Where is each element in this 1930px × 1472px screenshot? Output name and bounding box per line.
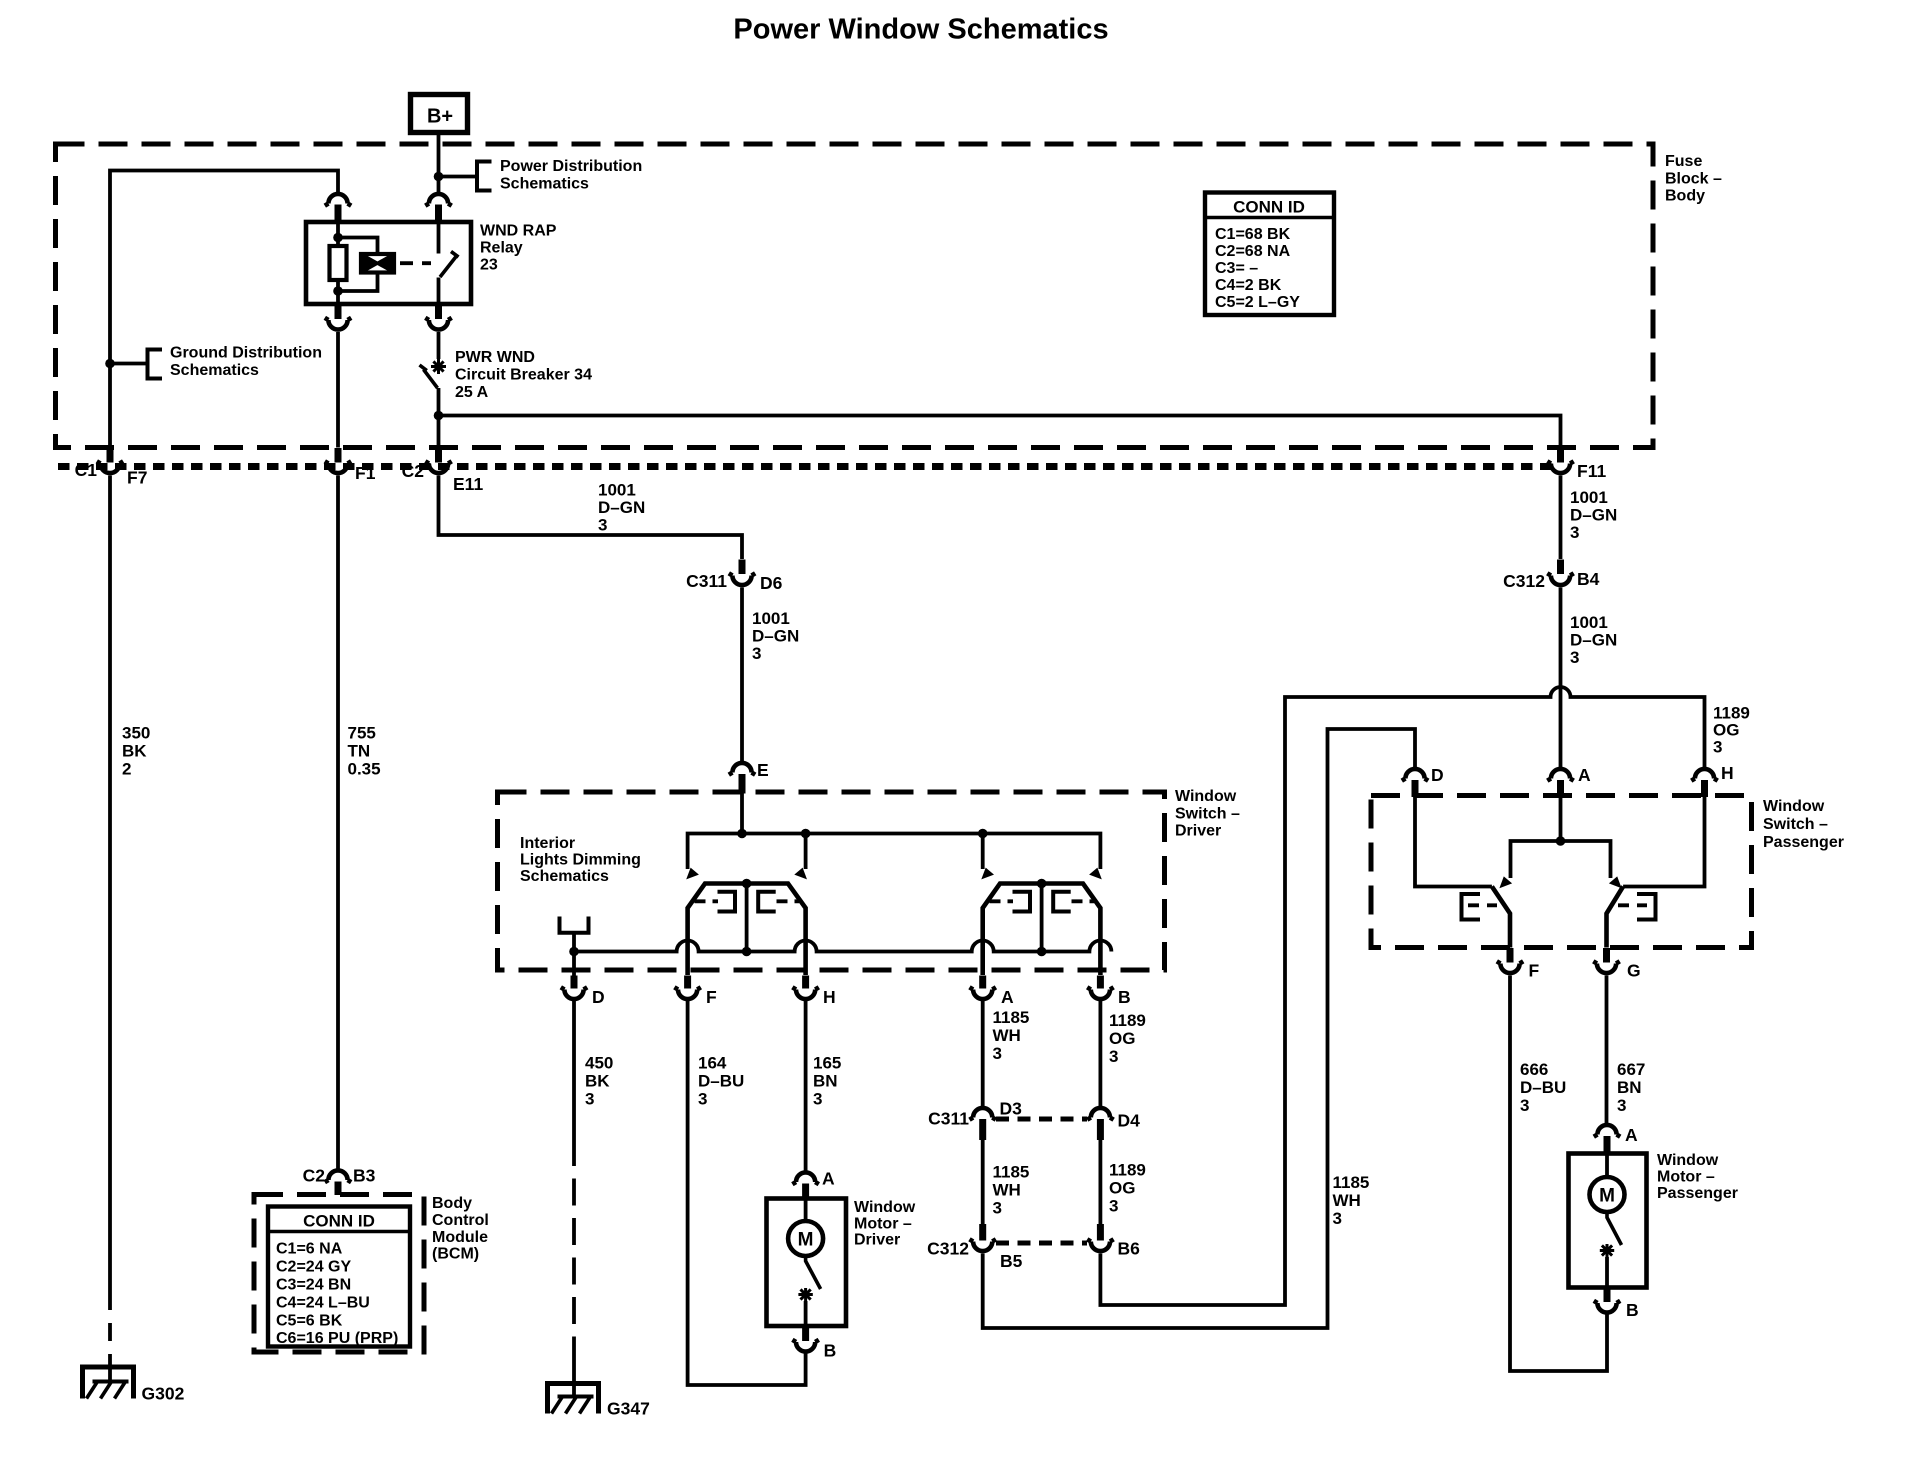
C312 jumper dashes (996, 1241, 1087, 1246)
label 350 BK 2 (122, 724, 150, 779)
CONN ID table (fuse block) (1205, 193, 1334, 316)
connector G (passenger switch) (1593, 948, 1640, 981)
svg-text:F11: F11 (1577, 461, 1606, 481)
connector A (passenger motor) (1594, 1125, 1638, 1154)
bracket Power Distribution Schematics (477, 158, 642, 193)
motor M passenger (1590, 1177, 1625, 1212)
svg-text:C6=16 PU (PRP): C6=16 PU (PRP) (276, 1330, 398, 1347)
label Interior Lights Dimming Schematics (520, 835, 641, 885)
svg-text:D–BU: D–BU (1520, 1078, 1566, 1097)
svg-text:G302: G302 (142, 1384, 185, 1404)
motor thermal blade passenger (1607, 1212, 1622, 1245)
svg-text:G347: G347 (607, 1399, 650, 1419)
switch2 left contact (990, 892, 1031, 912)
node breaker output (434, 411, 444, 421)
switch1 right contact (758, 892, 799, 912)
node coil top (333, 233, 343, 243)
svg-text:Window: Window (1657, 1152, 1719, 1169)
svg-text:3: 3 (1109, 1047, 1118, 1066)
svg-text:164: 164 (698, 1054, 727, 1073)
svg-text:1185: 1185 (993, 1163, 1030, 1182)
switch2 center post (1040, 884, 1044, 952)
connector B (driver switch) (1087, 976, 1130, 1008)
relay armature dashed linkage (400, 261, 431, 265)
B+ battery feed box (411, 95, 468, 133)
wire D to left pivot (1415, 797, 1492, 887)
svg-text:1185: 1185 (993, 1008, 1030, 1027)
svg-text:A: A (1625, 1125, 1638, 1145)
svg-text:1189: 1189 (1109, 1161, 1146, 1180)
label 1185 WH 3 upper (993, 1008, 1030, 1063)
svg-text:OG: OG (1109, 1179, 1135, 1198)
relay coil element (crossed box) (361, 254, 394, 273)
svg-text:B: B (824, 1341, 837, 1361)
wire E11 to C311 D6 (439, 476, 743, 560)
relay pin 4 connector (switch bottom) (425, 304, 451, 330)
svg-text:2: 2 (122, 760, 131, 779)
wire F11 to C312 B4 (1559, 476, 1563, 560)
wire 350 BK 2 (C1 to G302) (108, 476, 112, 1311)
svg-text:3: 3 (1109, 1197, 1118, 1216)
svg-text:3: 3 (1570, 523, 1579, 542)
label 1001 D-GN 3 (D6) (752, 609, 799, 663)
svg-text:Interior: Interior (520, 835, 575, 852)
svg-text:Driver: Driver (854, 1232, 900, 1249)
svg-text:1001: 1001 (598, 481, 636, 500)
svg-text:165: 165 (813, 1054, 841, 1073)
label 1001 D-GN 3 (E11) (598, 481, 645, 535)
connector C2/E11 (402, 448, 484, 494)
label 1189 OG 3 (passenger H) (1713, 704, 1750, 757)
wire 164 D-BU 3 (F to motor B loop) (688, 1001, 806, 1385)
svg-text:BK: BK (122, 742, 147, 761)
label 667 BN 3 (1617, 1060, 1645, 1115)
svg-text:3: 3 (752, 644, 761, 663)
ground G347 (545, 1384, 650, 1419)
relay switch output wire (437, 278, 441, 305)
relay pin 1 connector (coil top) (325, 194, 351, 222)
svg-text:C2=24 GY: C2=24 GY (276, 1259, 351, 1276)
switch2 right contact (1053, 892, 1094, 912)
connector C1/F7 (75, 448, 148, 488)
driver switch supply bus (688, 834, 1101, 870)
connector A (passenger switch) (1547, 765, 1591, 797)
wire 1185 WH 3 (A to D3) (981, 1001, 985, 1109)
svg-text:3: 3 (1713, 738, 1722, 757)
resistor (relay coil suppression) (330, 246, 347, 280)
svg-text:E: E (757, 760, 769, 780)
svg-text:F: F (1529, 961, 1540, 981)
svg-text:Window: Window (1175, 788, 1237, 805)
svg-text:D–GN: D–GN (598, 498, 645, 517)
wire 450 BK 3 (D to G347) (572, 1001, 576, 1397)
svg-text:1001: 1001 (1570, 613, 1608, 632)
svg-text:1001: 1001 (752, 609, 790, 628)
svg-text:Schematics: Schematics (520, 868, 609, 885)
svg-text:Passenger: Passenger (1763, 834, 1844, 851)
C311 jumper dashes (996, 1117, 1087, 1122)
wire 1185 WH 3 (B5 to passenger D) (983, 729, 1415, 1328)
svg-text:D–BU: D–BU (698, 1072, 744, 1091)
wire 165 BN 3 (H to motor A) (804, 1001, 808, 1173)
label 755 TN 0.35 (348, 724, 381, 779)
label Window Motor - Passenger (1657, 1152, 1738, 1202)
svg-text:C1=6 NA: C1=6 NA (276, 1241, 343, 1258)
svg-text:F: F (706, 987, 717, 1007)
svg-text:3: 3 (993, 1044, 1002, 1063)
svg-text:C3=24 BN: C3=24 BN (276, 1277, 351, 1294)
window motor passenger box (1569, 1154, 1647, 1288)
svg-text:Window: Window (854, 1199, 916, 1216)
node post1 top (742, 879, 752, 889)
wire 1189 OG 3 (B6 to passenger H) with hop (1100, 687, 1704, 1305)
svg-text:C2=68 NA: C2=68 NA (1215, 243, 1291, 260)
label PWR WND Circuit Breaker 34 25 A (455, 349, 592, 401)
wire 1185 WH 3 (D3 to B5) (981, 1140, 985, 1224)
inline connector C312 B5 (927, 1224, 1022, 1271)
wire relay switch to breaker (437, 332, 441, 359)
passenger right contact (1618, 894, 1656, 920)
svg-text:Body: Body (1665, 188, 1705, 205)
svg-text:666: 666 (1520, 1060, 1548, 1079)
label 1189 OG 3 mid (1109, 1161, 1146, 1216)
svg-text:D–GN: D–GN (1570, 631, 1617, 650)
label Window Switch - Driver (1175, 788, 1240, 840)
svg-text:D–GN: D–GN (752, 627, 799, 646)
relay pin 2 connector (switch top) (425, 194, 451, 222)
inline connector C311 D3 (928, 1099, 1022, 1141)
driver window switch 1 body (688, 884, 806, 976)
svg-text:Window: Window (1763, 798, 1825, 815)
svg-text:B3: B3 (353, 1166, 376, 1186)
label Window Switch - Passenger (1763, 798, 1844, 851)
svg-text:B5: B5 (1000, 1251, 1023, 1271)
switch1 center post (745, 884, 749, 952)
connector B (passenger motor) (1594, 1288, 1639, 1321)
connector D (driver switch) (561, 976, 605, 1008)
svg-text:WND RAP: WND RAP (480, 223, 557, 240)
svg-text:CONN ID: CONN ID (303, 1212, 375, 1231)
relay switch fixed contact (437, 222, 441, 254)
svg-text:C5=2 L–GY: C5=2 L–GY (1215, 294, 1300, 311)
label 1185 WH 3 mid (993, 1163, 1030, 1218)
svg-text:Schematics: Schematics (500, 176, 589, 193)
svg-text:A: A (1001, 987, 1014, 1007)
svg-text:Circuit Breaker 34: Circuit Breaker 34 (455, 367, 592, 384)
label 1001 D-GN 3 (B4) (1570, 613, 1617, 667)
relay coil branch wires (338, 238, 378, 292)
node passenger wiper (1556, 836, 1566, 846)
svg-text:D6: D6 (760, 573, 783, 593)
svg-text:D4: D4 (1118, 1111, 1141, 1131)
svg-text:(BCM): (BCM) (432, 1246, 479, 1263)
svg-text:G: G (1627, 961, 1641, 981)
svg-text:Passenger: Passenger (1657, 1185, 1738, 1202)
label 1185 WH 3 long (1333, 1173, 1370, 1228)
svg-text:F7: F7 (127, 468, 147, 488)
label WND RAP Relay 23 (480, 223, 557, 274)
window motor driver box (767, 1199, 847, 1327)
svg-text:667: 667 (1617, 1060, 1645, 1079)
wire D6 to E (740, 588, 744, 764)
driver window switch 2 body (983, 884, 1101, 976)
label Window Motor - Driver (854, 1199, 916, 1249)
svg-text:C312: C312 (927, 1239, 969, 1259)
svg-text:WH: WH (993, 1026, 1021, 1045)
node post2 bottom (1037, 947, 1047, 957)
passenger left switch blade (1492, 887, 1510, 948)
svg-text:C311: C311 (686, 571, 727, 591)
wire to power distribution bracket (439, 175, 478, 179)
relay K23 WND RAP box (306, 222, 471, 304)
svg-text:1001: 1001 (1570, 488, 1608, 507)
connector B (driver motor) (792, 1326, 836, 1361)
wire D leg (572, 952, 576, 977)
svg-text:BN: BN (813, 1072, 838, 1091)
wiper arrow passenger left (1499, 876, 1512, 888)
node post1 bottom (742, 947, 752, 957)
motor thermal contact star (798, 1288, 812, 1301)
svg-text:Motor –: Motor – (1657, 1169, 1715, 1186)
CONN ID table (BCM) (268, 1207, 410, 1348)
dimming return bus with hops (574, 941, 1111, 952)
svg-text:Power Window Schematics: Power Window Schematics (733, 14, 1108, 46)
wire E into supply bus (740, 794, 744, 834)
svg-text:Ground Distribution: Ground Distribution (170, 345, 322, 362)
label 450 BK 3 (585, 1054, 613, 1109)
svg-text:M: M (1599, 1186, 1615, 1207)
interior lights dimming connector symbol (560, 917, 589, 933)
svg-text:3: 3 (598, 516, 607, 535)
wire relay coil to F1 (336, 332, 340, 448)
svg-text:1189: 1189 (1109, 1011, 1146, 1030)
connector A (driver motor) (792, 1169, 835, 1200)
svg-text:23: 23 (480, 257, 498, 274)
node: power distribution tap (434, 172, 444, 182)
wire motor feed passenger (1605, 1154, 1609, 1178)
svg-text:WH: WH (1333, 1191, 1361, 1210)
node coil bottom (333, 286, 343, 296)
svg-text:B: B (1118, 987, 1131, 1007)
svg-text:25 A: 25 A (455, 384, 489, 401)
node: ground distribution tap (105, 359, 115, 369)
label Body Control Module (BCM) (432, 1195, 489, 1263)
connector D (passenger switch) (1402, 765, 1444, 797)
label 164 D-BU 3 (698, 1054, 744, 1109)
wire motor feed (804, 1199, 808, 1222)
motor thermal blade (806, 1256, 821, 1289)
ground G302 (80, 1367, 185, 1404)
motor thermal contact star passenger (1600, 1244, 1614, 1257)
svg-text:3: 3 (698, 1090, 707, 1109)
node post2 top (1037, 879, 1047, 889)
svg-text:WH: WH (993, 1181, 1021, 1200)
wire dimming stem (572, 933, 576, 952)
connector F11 (1547, 448, 1606, 481)
wire to ground distribution bracket (110, 362, 148, 366)
wire 666 D-BU 3 (F to motor B loop) (1510, 976, 1607, 1372)
node bus E (737, 829, 747, 839)
svg-text:Module: Module (432, 1229, 488, 1246)
svg-text:Schematics: Schematics (170, 362, 259, 379)
svg-text:F1: F1 (355, 463, 376, 483)
svg-text:C311: C311 (928, 1109, 969, 1129)
connector F (driver switch) (674, 976, 717, 1008)
svg-text:450: 450 (585, 1054, 613, 1073)
svg-text:Motor –: Motor – (854, 1216, 912, 1233)
window switch driver dashed box (498, 792, 1165, 970)
svg-text:755: 755 (348, 724, 376, 743)
body control module dashed box (254, 1195, 424, 1353)
svg-text:B: B (1626, 1300, 1639, 1320)
svg-text:Fuse: Fuse (1665, 153, 1702, 170)
svg-text:Relay: Relay (480, 240, 523, 257)
svg-text:D: D (1431, 765, 1444, 785)
svg-text:C4=24 L–BU: C4=24 L–BU (276, 1295, 370, 1312)
label 1001 D-GN 3 (F11) (1570, 488, 1617, 542)
svg-text:D: D (592, 987, 605, 1007)
svg-text:Control: Control (432, 1212, 489, 1229)
svg-text:C1=68 BK: C1=68 BK (1215, 226, 1291, 243)
svg-text:Block –: Block – (1665, 171, 1722, 188)
wiper arrow switch1 left (686, 868, 699, 880)
svg-text:0.35: 0.35 (348, 760, 381, 779)
svg-text:3: 3 (1617, 1096, 1626, 1115)
connector A (driver switch) (970, 976, 1015, 1008)
fuse block connector dotted line (58, 463, 1552, 470)
connector H (passenger switch) (1691, 763, 1733, 797)
svg-text:3: 3 (1333, 1209, 1342, 1228)
svg-text:E11: E11 (453, 474, 483, 494)
wire 1189 OG 3 (B to D4) (1099, 1001, 1103, 1109)
inline connector C312 B4 (1503, 560, 1599, 592)
wire breaker output (437, 388, 441, 448)
svg-text:H: H (823, 987, 836, 1007)
switch1 left contact (695, 892, 736, 912)
svg-text:M: M (798, 1230, 814, 1251)
relay coil feed wire (336, 222, 340, 246)
svg-text:3: 3 (993, 1199, 1002, 1218)
passenger left contact (1462, 894, 1498, 920)
connector H (driver switch) (792, 976, 835, 1008)
label Fuse Block - Body (1665, 153, 1722, 205)
svg-text:3: 3 (1570, 648, 1579, 667)
wire 1189 OG 3 (D4 to B6) (1099, 1140, 1103, 1224)
connector C2/B3 (BCM) (303, 1166, 376, 1196)
svg-text:B4: B4 (1577, 569, 1600, 589)
svg-text:B+: B+ (427, 106, 453, 128)
motor M driver (788, 1221, 823, 1256)
wire A to wiper U (1559, 797, 1563, 841)
svg-text:A: A (822, 1169, 835, 1189)
svg-text:BK: BK (585, 1072, 610, 1091)
relay pin 3 connector (coil bottom) (325, 304, 351, 330)
connector F1 (325, 448, 376, 483)
passenger wiper U (1511, 841, 1611, 878)
svg-text:C2: C2 (303, 1166, 326, 1186)
fuse block - body dashed box (56, 144, 1654, 448)
svg-text:C5=6 BK: C5=6 BK (276, 1313, 343, 1330)
node bus D (569, 947, 579, 957)
svg-text:A: A (1578, 765, 1591, 785)
wiper drop switch1 right (804, 834, 808, 870)
wire main feed to F11 (439, 416, 1561, 448)
bracket Ground Distribution Schematics (148, 345, 322, 381)
svg-text:OG: OG (1109, 1029, 1135, 1048)
inline connector D4 (1087, 1108, 1140, 1140)
svg-text:TN: TN (348, 742, 371, 761)
svg-text:C2: C2 (402, 461, 425, 481)
wire resistor bottom (336, 280, 340, 304)
svg-text:Driver: Driver (1175, 823, 1221, 840)
wire 667 BN 3 (G to motor A) (1605, 976, 1609, 1127)
inline connector B6 (1087, 1224, 1140, 1259)
svg-text:BN: BN (1617, 1078, 1642, 1097)
svg-text:3: 3 (813, 1090, 822, 1109)
svg-text:D–GN: D–GN (1570, 506, 1617, 525)
svg-text:PWR WND: PWR WND (455, 349, 535, 366)
svg-text:1185: 1185 (1333, 1173, 1370, 1192)
wiper arrow passenger right (1609, 876, 1622, 888)
wiper arrow switch1 right (794, 868, 807, 880)
wire 755 TN 0.35 (F1 to BCM) (336, 476, 340, 1171)
svg-text:B6: B6 (1118, 1239, 1141, 1259)
svg-text:Body: Body (432, 1195, 472, 1212)
svg-text:Power Distribution: Power Distribution (500, 158, 642, 175)
svg-text:3: 3 (585, 1090, 594, 1109)
svg-text:C4=2 BK: C4=2 BK (1215, 277, 1282, 294)
svg-text:C1: C1 (75, 460, 98, 480)
wire motor return passenger (1605, 1257, 1609, 1288)
wiper arrow switch2 right (1089, 868, 1102, 880)
label 666 D-BU 3 (1520, 1060, 1566, 1115)
connector F (passenger switch) (1497, 948, 1540, 981)
svg-text:3: 3 (1520, 1096, 1529, 1115)
wire H to right pivot (1623, 797, 1704, 887)
svg-text:Lights Dimming: Lights Dimming (520, 852, 641, 869)
wiper arrow switch2 left (981, 868, 994, 880)
svg-text:Switch –: Switch – (1175, 806, 1240, 823)
wire B4 to passenger A (1559, 588, 1563, 770)
relay switch blade (440, 252, 459, 278)
wire motor return (804, 1301, 808, 1326)
node bus drop1 (801, 829, 811, 839)
svg-text:CONN ID: CONN ID (1233, 198, 1305, 217)
connector E (driver switch) (729, 760, 769, 794)
wiper drop switch2 left (981, 834, 985, 870)
svg-text:350: 350 (122, 724, 150, 743)
svg-text:C3= –: C3= – (1215, 260, 1258, 277)
label 1189 OG 3 upper (1109, 1011, 1146, 1066)
svg-text:Switch –: Switch – (1763, 816, 1828, 833)
inline connector C311 D6 (686, 560, 783, 594)
label 165 BN 3 (813, 1054, 841, 1109)
window switch passenger dashed box (1371, 796, 1752, 948)
svg-text:D3: D3 (1000, 1099, 1023, 1119)
circuit breaker 34 contact star (431, 359, 446, 374)
svg-text:H: H (1721, 763, 1734, 783)
circuit breaker blade (420, 365, 438, 388)
wire B+ to relay (437, 133, 441, 194)
svg-text:C312: C312 (1503, 571, 1545, 591)
passenger right switch blade (1607, 887, 1624, 948)
node bus drop2 (978, 829, 988, 839)
wire top-left run to relay coil (110, 171, 338, 448)
